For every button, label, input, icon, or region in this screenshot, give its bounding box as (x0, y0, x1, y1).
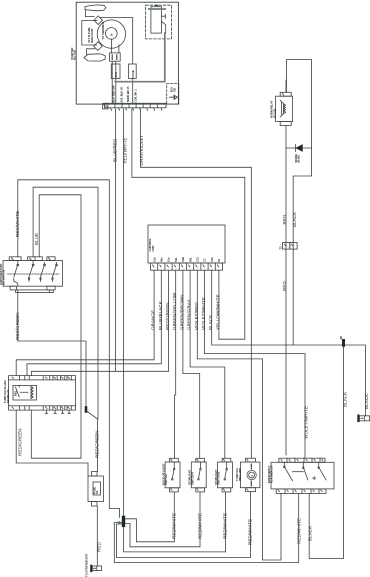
wire black bus riser to bottom (309, 345, 343, 558)
wire w4 green/yellow to switch S2 (175, 270, 176, 458)
svg-text:54: 54 (217, 259, 221, 262)
svg-text:C21: C21 (196, 257, 200, 262)
svg-text:8A: 8A (95, 491, 99, 494)
svg-text:BLUE/RED: BLUE/RED (112, 138, 117, 162)
ground symbol (170, 95, 175, 99)
svg-text:YELLOW/WHITE: YELLOW/WHITE (215, 294, 220, 330)
svg-text:TERM BR 15: TERM BR 15 (126, 86, 130, 102)
horn relay K2 box (276, 96, 293, 121)
S3 terminal marks (197, 459, 198, 490)
S2 bottom terminal (170, 488, 179, 492)
K2 top terminal box (280, 92, 291, 96)
svg-text:BLACK: BLACK (208, 315, 213, 330)
A1 terminal numbers (153, 265, 219, 267)
svg-text:54L: 54L (174, 257, 178, 262)
wire diamond X1 top to fuse boxB (101, 17, 133, 64)
svg-text:GRAY/VIOLET: GRAY/VIOLET (139, 135, 144, 166)
svg-text:31b: 31b (152, 257, 156, 262)
svg-text:RED/WHITE: RED/WHITE (296, 518, 301, 544)
K1 terminal number marks top (12, 377, 70, 379)
svg-text:RED/WHITE: RED/WHITE (197, 513, 202, 539)
K1 coil side bar (30, 387, 32, 399)
S1 contact blade 2 (29, 261, 33, 282)
svg-text:BLACK: BLACK (292, 212, 297, 227)
distributor rotor circle (97, 20, 125, 48)
svg-text:COIL BK 1: COIL BK 1 (134, 89, 138, 103)
wire fuse to starter connector (96, 506, 98, 566)
S2 blade (172, 462, 174, 479)
svg-text:SWITCH B: SWITCH B (217, 472, 221, 485)
A1 terminal row (151, 263, 223, 270)
svg-text:RED: RED (97, 542, 102, 552)
wire w5 green/brown to switch S3 (183, 270, 200, 458)
wire rotor to brush box left (111, 39, 113, 53)
S2 top terminal (170, 458, 179, 462)
S4 terminal marks (223, 459, 224, 490)
ignition/starter switch S1 box (3, 261, 63, 287)
turn signal flasher relay K1 box (9, 380, 76, 406)
H1 terminal marks (247, 459, 248, 490)
svg-text:RED: RED (282, 214, 287, 224)
splice SP2 blob (122, 517, 125, 525)
wire H1 to bus4 (117, 492, 251, 558)
S1 terminal number marks (12, 258, 51, 260)
fuse F1 top lead box (92, 472, 98, 477)
K1 top terminal row (9, 376, 76, 380)
wire plug P1 to diamond (85, 10, 94, 17)
wire S1 bottom right stub (49, 290, 51, 293)
battery top bar (149, 8, 165, 10)
battery lead (161, 22, 165, 34)
emergency flasher switch S5 box (271, 462, 334, 489)
S3 bottom terminal (196, 488, 205, 492)
wire S4 to bus3 (east end) (224, 492, 226, 552)
svg-text:RED/GREEN: RED/GREEN (15, 312, 20, 340)
S1 top terminal cells (9, 257, 21, 261)
S5 bottom terminal marks (278, 490, 322, 492)
K1 link dashes (21, 391, 29, 393)
svg-text:RED/WHITE: RED/WHITE (223, 513, 228, 539)
svg-text:VIOLET/WHITE: VIOLET/WHITE (303, 406, 308, 439)
svg-text:GD: GD (173, 88, 177, 92)
H1 lamp scalloped circle (247, 470, 256, 479)
wire brush box to label boxes (112, 61, 116, 103)
wire w10 yellow/white up (218, 270, 220, 339)
svg-text:SOL BLK 50: SOL BLK 50 (120, 87, 124, 103)
svg-text:RED/GREEN: RED/GREEN (165, 302, 170, 330)
S1 bottom terminal cells (10, 286, 16, 290)
S1 bottom housing strip (16, 290, 54, 293)
starter connector X9 (92, 566, 101, 571)
svg-text:ORANGE: ORANGE (151, 310, 156, 330)
fuse F1 outer box (88, 476, 103, 502)
ground symbol triangle (175, 96, 178, 99)
svg-text:T2: T2 (279, 246, 283, 250)
svg-text:BLACK: BLACK (364, 394, 369, 409)
svg-text:RED/WHITE: RED/WHITE (248, 519, 253, 545)
wire blue from switch to fuse splice (33, 187, 98, 471)
svg-text:C2: C2 (203, 258, 207, 262)
S3 blade (199, 462, 201, 479)
S3 top terminal (196, 458, 205, 462)
svg-text:30 H: 30 H (114, 72, 118, 78)
horn relay K2 feed loop top (287, 60, 312, 346)
SP2 branch elbows (114, 523, 130, 525)
battery plus mark (156, 4, 158, 6)
svg-text:BLACK: BLACK (308, 526, 313, 541)
svg-text:VIOLET/WHITE: VIOLET/WHITE (201, 297, 206, 330)
K2 bottom terminal box (280, 122, 291, 126)
wire rotor rim to brush box right (118, 45, 120, 53)
wire K1 bottom to fuse top (16, 410, 88, 476)
svg-text:RED/GREEN: RED/GREEN (18, 428, 23, 456)
wire w3 red/green to K1 (32, 270, 169, 375)
K1 coil zigzag (31, 387, 33, 399)
svg-text:BLUE: BLUE (34, 233, 39, 245)
svg-text:BLUE/BLACK: BLUE/BLACK (158, 301, 163, 330)
connector plug P1 (top) (85, 5, 106, 11)
S5 blade 1 (284, 462, 292, 481)
inline connector X5 left cell (283, 243, 290, 250)
svg-text:IND LAMP: IND LAMP (238, 468, 242, 481)
wire w7 violet/red to box S5 bottom (197, 270, 281, 560)
connector diamond X1 (94, 16, 103, 25)
K1 inner mechanism box (13, 385, 37, 400)
svg-text:SP: SP (339, 336, 343, 340)
battery body B1 (151, 7, 162, 33)
field winding box (82, 21, 97, 46)
wire S2 to bus1 (125, 492, 174, 542)
svg-text:4: 4 (250, 475, 254, 477)
wire S3 to bus2 (130, 492, 200, 547)
S5 blade 2 (303, 462, 308, 480)
battery cable (thick) (115, 33, 165, 82)
svg-text:RED/WHITE: RED/WHITE (172, 513, 177, 539)
diode D1 cathode bar (295, 145, 297, 152)
H1 bottom terminal (246, 488, 256, 492)
wire red/white feed to ignition switch (18, 180, 120, 518)
svg-text:GREEN/GRAY: GREEN/GRAY (187, 299, 192, 330)
S5 blade 3 (319, 462, 326, 480)
wire blue/red from strip (114, 109, 116, 371)
wire red/green S1 to splice SP1 (18, 290, 86, 408)
generator/starter unit U1 outer box (76, 2, 178, 104)
splice SP1 diagonal (87, 411, 98, 419)
K1 bottom ground ticks (45, 410, 70, 413)
indicator lamp H1 box (240, 462, 260, 488)
S1 contact blade 1 (14, 261, 18, 287)
svg-text:TO STARTER MOT: TO STARTER MOT (85, 553, 89, 577)
splice SP3 blob on black bus (342, 341, 345, 346)
wire fuse boxB to strip (132, 79, 134, 104)
battery side terminal (161, 14, 165, 18)
connector diamond X2 (94, 42, 103, 51)
svg-text:BLK RED SW: BLK RED SW (111, 85, 115, 102)
svg-text:W COIL: W COIL (272, 108, 276, 118)
svg-text:49a: 49a (160, 257, 164, 262)
svg-text:REL: REL (14, 390, 18, 396)
K1 bottom terminal row (9, 406, 76, 410)
wire K2 through (285, 80, 287, 455)
H1 top terminal (246, 458, 256, 462)
svg-text:FLASHER SW: FLASHER SW (270, 465, 274, 483)
S4 bottom terminal (222, 488, 231, 492)
wire red/white main from strip through splice to bus3 (124, 109, 226, 552)
S1 mechanical link dashed (8, 273, 60, 275)
wire w8 violet/white to box S5 top (205, 270, 306, 458)
svg-text:RED/GREEN: RED/GREEN (95, 430, 100, 458)
wire gray/violet from strip to lamp (140, 109, 251, 458)
fuse F1 inner box (93, 482, 101, 495)
K2 terminal mark (282, 93, 284, 95)
wire w2 blue/black to K1 (27, 270, 161, 375)
S4 top terminal (222, 458, 231, 462)
in-unit fuse box A (111, 64, 120, 79)
K1 contact blade (16, 385, 20, 397)
stoplight switch S4 box (218, 462, 233, 488)
S2 terminal marks (171, 459, 172, 490)
S4 blade (225, 462, 227, 479)
svg-text:SWITCH A: SWITCH A (190, 472, 194, 485)
svg-text:ER SWITCH: ER SWITCH (2, 270, 6, 285)
svg-text:31b: 31b (210, 257, 214, 262)
battery dashed box (146, 5, 172, 39)
wire S5 red/white down to bus5 (114, 493, 298, 562)
svg-text:54R: 54R (181, 257, 185, 262)
inline connector X5 right cell (290, 243, 297, 250)
svg-text:UNIT: UNIT (151, 245, 155, 252)
ground connector X8 (359, 416, 369, 421)
unit terminal strip (105, 103, 167, 108)
S5 plus mark (313, 477, 316, 480)
wire diamond X2 to plug P2 (87, 49, 96, 55)
svg-text:M: M (110, 33, 114, 36)
svg-text:FUSE: FUSE (131, 70, 135, 77)
S5 internal link (293, 471, 304, 473)
svg-text:MOTOR: MOTOR (73, 50, 77, 60)
svg-text:GREEN/YELLOW: GREEN/YELLOW (172, 292, 177, 330)
splice SP1 blob (85, 408, 88, 412)
X5 cell marks (284, 244, 293, 246)
K2 horn cone (280, 100, 283, 117)
wire w1 orange to K1 (16, 270, 154, 375)
H1 lead marks (250, 464, 252, 486)
strip left end cell (103, 103, 108, 109)
svg-text:58L: 58L (188, 257, 192, 262)
diode D1 triangle (296, 145, 302, 151)
ground dashed box (167, 84, 179, 105)
wire w6 green/gray to switch S4 (190, 270, 225, 458)
svg-text:RED/WHITE: RED/WHITE (15, 211, 20, 237)
wire w9 black bus east (212, 270, 366, 416)
fuse F1 bottom lead box (92, 502, 98, 507)
connector plug P2 (lower) (84, 54, 105, 61)
diode D1 bridge (286, 147, 312, 149)
svg-text:RED: RED (282, 281, 287, 291)
svg-text:RED/WHITE: RED/WHITE (122, 137, 127, 163)
S5 bottom terminal row (276, 489, 326, 494)
strip cell dividers (115, 103, 157, 108)
svg-text:INJECTION: INJECTION (90, 29, 94, 43)
inner rotor circle (106, 28, 118, 40)
K1 terminal number marks bottom (12, 407, 70, 409)
S1 contact blade 4 (53, 263, 57, 282)
svg-text:GREEN/BROWN: GREEN/BROWN (179, 294, 184, 330)
brush box marks (112, 55, 117, 60)
svg-text:15a: 15a (167, 257, 171, 262)
backup light switch S2 box (165, 462, 180, 488)
svg-text:TO TERMINAL: TO TERMINAL (101, 21, 105, 40)
in-unit fuse box B (129, 64, 137, 79)
H1 lamp inner circle (249, 472, 255, 478)
strip terminal ticks (111, 108, 163, 111)
svg-text:(RAD): (RAD) (297, 155, 301, 163)
K2 coil zigzag (284, 104, 286, 114)
svg-text:BLACK: BLACK (343, 392, 348, 407)
wire switch X terminal loop to flasher relay (31, 195, 81, 458)
brush terminal box (110, 53, 121, 61)
control unit A1 box (148, 225, 225, 263)
wire terminal15 from strip down and east (132, 109, 245, 339)
S5 top terminal marks (281, 459, 323, 461)
svg-text:SWITCH: SWITCH (164, 474, 168, 485)
svg-text:ER RELAY: ER RELAY (6, 389, 10, 403)
S1 contact blade 3 (41, 263, 45, 282)
S5 top terminal row (279, 458, 325, 462)
svg-text:VIOLET/RED: VIOLET/RED (194, 302, 199, 330)
stoplight switch S3 box (191, 462, 206, 488)
